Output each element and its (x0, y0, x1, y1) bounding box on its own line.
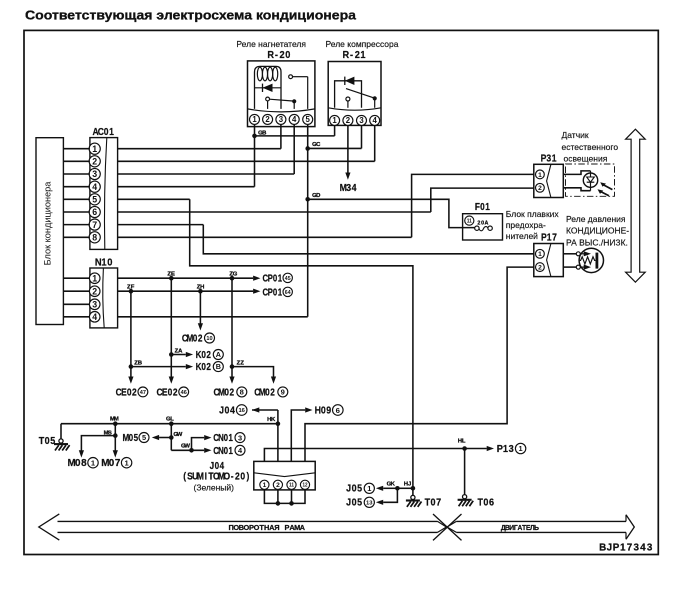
svg-text:T: T (425, 497, 431, 508)
node CN01 branch (189, 448, 194, 453)
AC01 pin 3 (89, 168, 100, 179)
svg-text:G: G (233, 272, 238, 278)
svg-text:J: J (346, 482, 351, 494)
node GB (252, 134, 257, 139)
svg-text:2: 2 (538, 264, 542, 271)
svg-text:Блок кондиционера: Блок кондиционера (43, 181, 53, 266)
wire GK down to J05-13 (arrow left) (383, 488, 397, 502)
svg-text:1: 1 (332, 116, 337, 125)
svg-text:Блок плавких: Блок плавких (506, 209, 560, 219)
N10 pin 3 (89, 299, 100, 310)
node GW upper (169, 435, 174, 440)
node HL (462, 446, 467, 451)
wire N10-4 to R-20 pin5 trunk (118, 316, 308, 318)
wire AC01-7 to P17 pin1 (118, 224, 204, 226)
svg-text:3: 3 (92, 299, 97, 309)
svg-text:T: T (39, 435, 45, 446)
svg-text:1: 1 (620, 543, 626, 554)
wire ZB to K02-B (131, 366, 186, 368)
svg-text:F: F (131, 285, 135, 291)
N10 pin 2 (89, 286, 100, 297)
svg-text:А: А (300, 523, 306, 532)
svg-text:3: 3 (279, 115, 284, 124)
svg-text:2: 2 (173, 387, 178, 398)
svg-text:R: R (343, 50, 350, 61)
P17 pin 1 (536, 249, 545, 258)
svg-text:2: 2 (265, 115, 270, 124)
svg-text:0: 0 (352, 496, 357, 508)
svg-text:H: H (200, 285, 204, 291)
svg-text:0: 0 (480, 201, 485, 212)
svg-text:0: 0 (224, 387, 229, 398)
R-20 diode (255, 87, 281, 89)
R-21 pin 1 (330, 115, 340, 125)
svg-text:1: 1 (252, 115, 257, 124)
wire N10-1 to CP01-45 with ZE ZG taps (118, 277, 254, 279)
svg-text:10: 10 (206, 336, 212, 342)
wires: Блок кондиционера to AC01 stubs (63, 148, 90, 150)
J04 pin 2 (273, 480, 282, 489)
wire MM down to MS (114, 424, 116, 436)
svg-text:РА ВЫС./НИЗК.: РА ВЫС./НИЗК. (566, 237, 628, 247)
svg-text:Я: Я (274, 523, 279, 532)
svg-text:W: W (184, 444, 190, 450)
wire AC01-2 to R-21 pin4 (118, 160, 375, 162)
svg-text:9: 9 (281, 388, 285, 397)
svg-text:4: 4 (352, 183, 358, 194)
svg-text:45: 45 (285, 276, 291, 282)
svg-text:P: P (613, 543, 620, 554)
svg-text:2: 2 (538, 185, 542, 192)
ground T07 (411, 495, 415, 499)
svg-text:1: 1 (367, 484, 371, 493)
svg-text:1: 1 (552, 153, 557, 164)
svg-text:(Зеленый): (Зеленый) (194, 482, 235, 492)
horizontal double arrow ДВИГАТЕЛЬ (447, 521, 456, 532)
svg-text:0: 0 (107, 257, 112, 268)
wire ZZ to CM02-9 (232, 367, 274, 377)
svg-text:0: 0 (225, 405, 230, 416)
wire P17 pin2 to pressure switch (563, 266, 576, 268)
svg-text:5: 5 (92, 194, 97, 204)
svg-text:46: 46 (181, 390, 188, 396)
svg-text:J: J (219, 405, 224, 416)
svg-text:3: 3 (647, 543, 653, 554)
svg-text:A: A (178, 349, 183, 355)
R-20 pin 3 (276, 114, 286, 124)
svg-text:3: 3 (546, 153, 551, 164)
wire GC to R-21 pin3 (308, 147, 362, 149)
svg-text:0: 0 (129, 432, 133, 443)
node ZB (129, 364, 134, 369)
svg-text:0: 0 (430, 497, 435, 508)
svg-text:T: T (478, 497, 484, 508)
connector N10 (90, 268, 118, 328)
wire to H09-6 (arrow right) (291, 410, 305, 461)
svg-text:J: J (408, 481, 411, 487)
wires: Блок кондиционера to N10 stubs (63, 277, 90, 279)
R-21 pin 4 (370, 115, 380, 125)
node HK (276, 421, 281, 426)
wire GD to fuse F01 (308, 199, 477, 227)
P31 pin 2 (536, 183, 545, 192)
wire ZH down to CM02-10 (199, 291, 201, 323)
wire J04 pin1 to P13 / T06 (HL) (264, 449, 486, 462)
svg-text:P: P (268, 273, 273, 284)
svg-text:1: 1 (263, 482, 267, 489)
wire P17 pin1 to pressure switch (563, 253, 576, 255)
wire HL down to ground T06 (464, 449, 466, 495)
svg-text:0: 0 (127, 387, 132, 398)
svg-text:E: E (171, 272, 175, 278)
svg-text:2: 2 (355, 50, 360, 61)
svg-text:47: 47 (140, 390, 146, 396)
svg-text:12: 12 (303, 483, 308, 489)
wire ZF down to CE02-47, ZB tap (130, 291, 132, 377)
svg-text:Соответствующая электросхема к: Соответствующая электросхема кондиционер… (25, 8, 357, 23)
svg-text:5: 5 (50, 435, 55, 446)
svg-text:0: 0 (273, 273, 277, 284)
svg-text:0: 0 (168, 387, 173, 398)
svg-text:3: 3 (359, 116, 364, 125)
svg-text:2: 2 (279, 50, 284, 61)
svg-text:1: 1 (278, 273, 282, 284)
R-20 pin 2 (263, 114, 273, 124)
AC01 pin 7 (89, 219, 100, 230)
svg-text:1: 1 (360, 50, 366, 61)
AC01 pin 1 (89, 143, 100, 154)
svg-text:1: 1 (229, 445, 233, 456)
svg-text:2: 2 (92, 156, 97, 166)
node ZF (129, 289, 134, 294)
svg-text:0: 0 (240, 471, 245, 482)
J04 bottom tie bus (264, 490, 305, 504)
svg-text:11: 11 (467, 219, 472, 225)
svg-text:6: 6 (92, 207, 97, 217)
wire AC01-1 to R-20 pin3 (118, 148, 281, 150)
wire MS down to M07 arrow (114, 436, 116, 451)
R-20 switch (266, 97, 270, 101)
svg-text:2: 2 (206, 361, 211, 372)
svg-text:L: L (462, 439, 466, 445)
svg-text:11: 11 (289, 483, 294, 489)
svg-text:0: 0 (285, 50, 290, 61)
svg-text:C: C (316, 142, 321, 148)
svg-text:Реле нагнетателя: Реле нагнетателя (236, 39, 306, 49)
svg-text:8: 8 (81, 458, 87, 469)
svg-text:0: 0 (265, 387, 270, 398)
svg-text:A: A (216, 350, 221, 359)
svg-text:16: 16 (238, 408, 245, 414)
svg-text:2: 2 (198, 333, 203, 344)
svg-text:4: 4 (640, 543, 646, 554)
svg-text:0: 0 (201, 361, 206, 372)
svg-text:B: B (216, 362, 221, 371)
P31 pin 1 (536, 170, 545, 179)
wire N10-2 to CP01-64 with ZF ZH taps (118, 290, 254, 292)
svg-text:0: 0 (109, 458, 115, 469)
svg-text:Реле давления: Реле давления (566, 214, 626, 224)
svg-text:3: 3 (509, 444, 514, 455)
svg-text:1: 1 (538, 172, 542, 179)
node ZZ (230, 364, 235, 369)
svg-text:Z: Z (240, 360, 244, 366)
svg-text:O: O (224, 471, 231, 482)
wire AC01-6 to P31 pin2 (118, 211, 431, 213)
svg-text:КОНДИЦИОНЕ-: КОНДИЦИОНЕ- (566, 226, 629, 236)
svg-text:естественного: естественного (562, 142, 619, 152)
node ZH (198, 289, 203, 294)
svg-text:4: 4 (92, 312, 97, 322)
J04 pin 12 (300, 480, 309, 489)
R-21 switch (346, 97, 350, 101)
svg-text:5: 5 (134, 432, 138, 443)
svg-text:0: 0 (224, 432, 228, 443)
svg-text:7: 7 (92, 220, 97, 230)
svg-text:7: 7 (627, 543, 633, 554)
svg-text:8: 8 (240, 388, 244, 397)
svg-text:Датчик: Датчик (562, 130, 589, 140)
node MM (113, 421, 118, 426)
svg-text:1: 1 (92, 273, 97, 283)
AC01 pin 8 (89, 232, 100, 243)
svg-text:0: 0 (104, 126, 109, 137)
svg-text:7: 7 (552, 232, 557, 243)
svg-text:3: 3 (346, 183, 351, 194)
ground T05 (60, 424, 62, 439)
svg-text:4: 4 (220, 460, 224, 471)
svg-text:1: 1 (92, 144, 97, 154)
R-20 pin 1 (250, 114, 260, 124)
R-21 pin 2 (343, 115, 353, 125)
wire GW lower to CN01-4 (171, 449, 204, 451)
svg-text:2: 2 (92, 286, 97, 296)
svg-text:2: 2 (276, 482, 280, 489)
svg-text:0: 0 (201, 349, 206, 360)
R-20 pin5 contact (289, 75, 293, 79)
wire AC01-8 to P31 pin1 (118, 236, 412, 238)
wire P31 pin1 to photodiode (563, 171, 590, 175)
wire J04 pin2 column (277, 410, 279, 461)
node MS (113, 433, 118, 438)
J04 pin 11 (287, 480, 296, 489)
wire HJ to GK (397, 487, 413, 489)
svg-text:1: 1 (278, 287, 282, 298)
N10 pin 1 (89, 273, 100, 284)
svg-text:64: 64 (285, 290, 292, 296)
svg-text:0: 0 (224, 445, 228, 456)
ground T06 (463, 495, 467, 499)
wire AC01-4 to R-20 pin1, GB junction (118, 186, 255, 188)
vertical double arrow (frame boundary) (626, 129, 646, 282)
svg-text:0: 0 (193, 333, 198, 344)
svg-text:2: 2 (132, 387, 137, 398)
block: Блок кондиционера (36, 138, 63, 325)
ground bus wire (T05 rail) (61, 423, 278, 425)
R-20 pin 5 (303, 114, 313, 124)
svg-text:0: 0 (215, 460, 219, 471)
AC01 pin 4 (89, 181, 100, 192)
node GC (305, 146, 310, 151)
svg-text:P: P (541, 153, 547, 164)
svg-text:2: 2 (346, 116, 351, 125)
svg-text:нителей: нителей (506, 231, 538, 241)
P17 pin 2 (536, 263, 545, 272)
svg-text:0: 0 (321, 405, 326, 416)
AC01 pin 2 (89, 156, 100, 167)
svg-text:0: 0 (75, 458, 81, 469)
N10 pin 4 (89, 312, 100, 323)
wire ZE down to CE02-46, ZA tap (170, 278, 172, 377)
svg-text:1: 1 (547, 232, 552, 243)
photodiode D (light sensor) (583, 173, 597, 187)
wire branch to CN01-3 (192, 438, 205, 451)
svg-text:A: A (485, 220, 489, 226)
svg-text:J: J (607, 543, 613, 554)
node GL (169, 421, 174, 426)
svg-text:4: 4 (92, 182, 97, 192)
svg-text:0: 0 (273, 287, 277, 298)
svg-text:2: 2 (270, 387, 275, 398)
svg-text:E: E (162, 387, 168, 398)
R-21 pin 3 (357, 115, 367, 125)
svg-text:8: 8 (92, 232, 97, 242)
svg-text:5: 5 (142, 433, 146, 442)
svg-text:M: M (114, 417, 119, 423)
svg-text:I: I (205, 471, 207, 482)
svg-text:3: 3 (633, 543, 639, 554)
svg-text:W: W (177, 432, 183, 438)
R-20 pin 4 (289, 114, 299, 124)
svg-text:R: R (267, 50, 274, 61)
J04 pin 1 (260, 480, 269, 489)
svg-text:-: - (231, 471, 234, 482)
svg-text:Реле компрессора: Реле компрессора (325, 39, 398, 49)
R-21 coil loop with diode (335, 81, 362, 108)
svg-text:1: 1 (109, 126, 114, 137)
node ZG (230, 276, 235, 281)
svg-text:4: 4 (292, 115, 297, 124)
node HJ (411, 486, 416, 491)
svg-text:M: M (197, 471, 204, 482)
wire ZG down to CM02-8, ZZ tap (231, 278, 233, 377)
svg-text:2: 2 (477, 220, 480, 226)
wire to J04-16 (arrow left) (252, 407, 259, 412)
wire AC01-5 down to turning frame (row5 route) (118, 198, 190, 200)
svg-text:J: J (210, 460, 214, 471)
svg-text:13: 13 (366, 500, 373, 506)
svg-text:3: 3 (238, 433, 242, 442)
svg-text:3: 3 (92, 169, 97, 179)
svg-text:2: 2 (229, 387, 234, 398)
svg-text:освещения: освещения (564, 154, 608, 164)
connector J04 (SUMITOMO-20) (254, 461, 315, 490)
wire GB to R-21 pin1 (255, 135, 335, 137)
svg-text:7: 7 (436, 497, 441, 508)
horizontal double arrow ПОВОРОТНАЯ РАМА (39, 514, 60, 540)
svg-text:2: 2 (206, 349, 211, 360)
light sensor dash-dot enclosure (566, 164, 615, 196)
svg-text:P: P (541, 232, 547, 243)
svg-text:6: 6 (489, 497, 494, 508)
wire GL down (170, 424, 172, 451)
wire to M05-5 (arrow left) (159, 437, 171, 439)
svg-text:J: J (346, 496, 351, 508)
svg-text:4: 4 (373, 116, 378, 125)
svg-text:P: P (268, 287, 273, 298)
svg-text:): ) (247, 471, 250, 482)
wire GK to J05-1 (arrow left) (383, 487, 397, 489)
svg-text:K: K (271, 417, 276, 423)
node ZA (169, 352, 174, 357)
break X (433, 514, 462, 540)
wire MS to M08 arrow (81, 436, 115, 451)
wire HJ down to ground T07 (412, 488, 414, 495)
svg-text:9: 9 (326, 405, 331, 416)
connector AC01 (90, 138, 118, 250)
svg-text:7: 7 (115, 458, 121, 469)
svg-text:5: 5 (357, 482, 362, 494)
svg-text:D: D (316, 193, 320, 199)
AC01 pin 5 (89, 194, 100, 205)
wire AC01-3 to R-20 pin4 (118, 173, 295, 175)
wire J04 pin12 to P17 pin2 (305, 267, 534, 461)
svg-text:предохра-: предохра- (506, 220, 546, 230)
svg-text:B: B (599, 543, 606, 554)
svg-text:1: 1 (519, 444, 523, 453)
svg-text:K: K (391, 481, 396, 487)
R-20 coil (255, 66, 282, 109)
svg-text:1: 1 (229, 432, 233, 443)
svg-text:4: 4 (230, 405, 236, 416)
node ZE (169, 276, 174, 281)
wire R-20 pin5 down (GC/GD trunk) (307, 124, 309, 316)
node GD (305, 197, 310, 202)
svg-text:0: 0 (45, 435, 50, 446)
svg-text:5: 5 (357, 496, 362, 508)
svg-text:Ь: Ь (534, 525, 539, 532)
svg-text:1: 1 (485, 201, 490, 212)
svg-text:5: 5 (306, 115, 311, 124)
wire P31 pin2 to photodiode (563, 188, 590, 191)
svg-text:-: - (350, 50, 353, 61)
pressure switch B (A/C high/low) (579, 248, 603, 272)
R-21 body wave (328, 108, 381, 110)
svg-text:2: 2 (235, 471, 240, 482)
light arrows (603, 185, 612, 190)
svg-text:1: 1 (538, 251, 542, 258)
svg-text:0: 0 (483, 497, 488, 508)
node GK (395, 486, 400, 491)
wire ZA to K02-A (171, 354, 186, 356)
svg-text:-: - (275, 50, 278, 61)
svg-text:E: E (121, 387, 127, 398)
svg-text:0: 0 (352, 482, 357, 494)
R-20 body wave (248, 109, 315, 112)
AC01 pin 6 (89, 206, 100, 217)
svg-text:6: 6 (336, 406, 340, 415)
svg-text:L: L (170, 417, 174, 423)
svg-text:B: B (138, 360, 142, 366)
wire R-21 pin2 to M34 (347, 125, 349, 173)
